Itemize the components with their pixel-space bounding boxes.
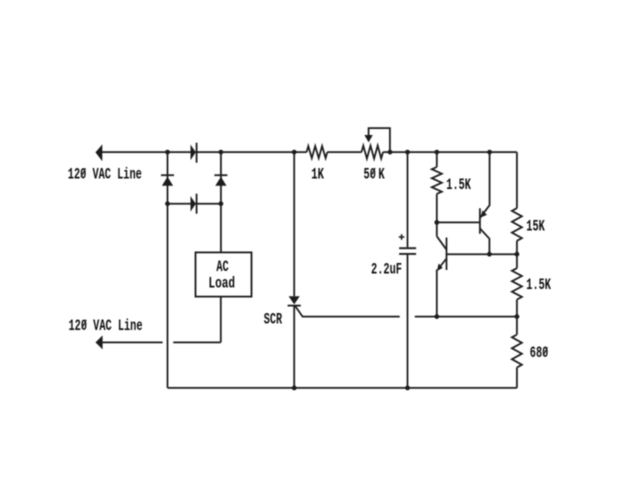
- svg-text:SCR: SCR: [264, 311, 283, 329]
- svg-text:680: 680: [530, 344, 549, 362]
- svg-text:120 VAC Line: 120 VAC Line: [69, 317, 143, 335]
- svg-text:120 VAC Line: 120 VAC Line: [68, 165, 142, 183]
- svg-text:AC: AC: [216, 258, 229, 276]
- svg-text:50: 50: [364, 165, 376, 183]
- svg-text:Load: Load: [208, 275, 235, 293]
- svg-text:K: K: [378, 165, 385, 183]
- svg-text:15K: 15K: [526, 218, 545, 236]
- svg-text:1.5K: 1.5K: [526, 276, 551, 294]
- svg-text:1K: 1K: [311, 165, 324, 183]
- svg-text:1.5K: 1.5K: [446, 176, 471, 194]
- svg-text:2.2uF: 2.2uF: [371, 261, 402, 279]
